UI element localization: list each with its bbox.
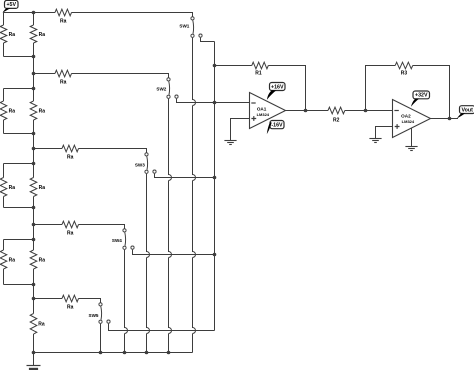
wire SW5 throw-to-ground bus	[100, 324, 102, 353]
switch SW2	[156, 78, 178, 99]
node pair2 top	[32, 87, 36, 91]
svg-text:Ra: Ra	[9, 257, 16, 263]
wire SW4 throw-to-ground bus	[125, 250, 128, 353]
svg-text:+16V: +16V	[271, 84, 284, 90]
wire SW2 throw-to-ground bus	[169, 99, 172, 353]
resistor Ra bottom	[30, 314, 45, 335]
node pair3 top	[32, 162, 36, 166]
net flag Vout	[457, 106, 474, 119]
node R1 output junction	[304, 109, 308, 113]
wire OA2 power pin	[411, 128, 413, 147]
node rail SW4	[123, 351, 127, 355]
svg-text:Ra: Ra	[67, 154, 74, 160]
resistor R1	[252, 62, 269, 76]
svg-text:Ra: Ra	[9, 185, 16, 191]
ground main	[27, 353, 41, 370]
wire SW4 to summing bus	[133, 250, 215, 255]
resistor Ra pair3 left	[0, 164, 15, 208]
resistor Ra pair2 left	[0, 89, 15, 134]
svg-text:Ra: Ra	[60, 18, 67, 24]
resistor Ra pair4 left	[0, 240, 15, 285]
wire OA2 output	[431, 118, 459, 120]
resistor Ra row2	[55, 70, 72, 85]
node pair1 bottom	[32, 55, 36, 59]
node row3 spine junction	[32, 147, 36, 151]
svg-text:LM324: LM324	[257, 112, 270, 117]
wire OA2 noninverting input	[376, 127, 393, 139]
power flag +32V	[411, 91, 430, 107]
svg-text:SW4: SW4	[112, 238, 122, 243]
resistor Ra row1	[55, 9, 72, 24]
wire pair2 top bracket	[4, 88, 34, 90]
svg-text:Ra: Ra	[9, 32, 16, 38]
wire OA1 noninverting input	[231, 119, 250, 141]
wire SW2 to inverting input	[177, 99, 250, 103]
ground OA1	[224, 140, 236, 145]
node rail SW3	[145, 351, 149, 355]
resistor Ra row4	[62, 221, 79, 236]
resistor Ra pair4 right	[30, 250, 45, 269]
node R3 output junction	[448, 117, 452, 121]
wire R1 right to output	[268, 66, 305, 111]
power flag +16V	[267, 83, 285, 100]
node pair3 bottom	[32, 206, 36, 210]
node summing bus R1 tap	[213, 64, 217, 68]
power flag +5V	[3, 0, 19, 12]
node rail SW2	[167, 351, 171, 355]
wire row3	[34, 149, 147, 153]
wire SW1 throw-to-ground bus	[193, 38, 196, 353]
node rail spine	[32, 351, 36, 355]
wire R2 to OA2 input	[345, 110, 393, 112]
switch SW5	[89, 303, 111, 324]
svg-text:Ra: Ra	[67, 304, 74, 310]
wire OA1 output	[286, 110, 329, 112]
ground OA2 power	[405, 146, 417, 151]
node summing bus SW3 tap	[213, 176, 217, 180]
svg-text:SW1: SW1	[179, 23, 189, 28]
wire pair3 bottom bracket	[4, 207, 34, 209]
svg-text:OA2: OA2	[401, 114, 411, 119]
ground OA2 input	[369, 138, 381, 143]
wire row4	[34, 225, 125, 229]
wire ladder spine	[33, 13, 35, 353]
resistor Ra row3	[62, 145, 79, 160]
svg-text:LM324: LM324	[402, 119, 415, 124]
resistor R3	[395, 62, 413, 76]
svg-text:R1: R1	[255, 70, 262, 76]
node row2 spine junction	[32, 72, 36, 76]
node pair2 bottom	[32, 132, 36, 136]
svg-text:SW5: SW5	[89, 313, 99, 318]
resistor Ra pair3 right	[30, 178, 45, 197]
svg-text:Ra: Ra	[67, 230, 74, 236]
wire R3 left leg	[366, 66, 396, 111]
wire ground rail	[34, 352, 193, 354]
wire pair2 bottom bracket	[4, 133, 34, 135]
svg-text:-16V: -16V	[271, 122, 283, 128]
wire R1 left	[215, 65, 252, 67]
wire row2	[34, 74, 169, 78]
wire row5	[34, 299, 101, 303]
svg-text:+32V: +32V	[415, 93, 428, 99]
switch SW1	[179, 17, 202, 38]
wire SW3 throw-to-ground bus	[147, 174, 150, 353]
wire pair4 bottom bracket	[4, 284, 34, 286]
wire SW1 to summing bus	[201, 38, 215, 42]
node rail SW5	[99, 351, 103, 355]
wire pair1 bottom bracket	[4, 56, 34, 58]
svg-text:R2: R2	[333, 117, 340, 123]
wire R3 right leg	[413, 66, 450, 119]
node summing bus SW4 tap	[213, 253, 217, 257]
wire SW5 to summing bus	[109, 324, 215, 331]
wire +5V top rail	[4, 13, 193, 17]
switch SW3	[135, 153, 156, 174]
resistor R2	[328, 107, 345, 123]
switch SW4	[112, 229, 134, 250]
svg-text:SW2: SW2	[156, 87, 166, 92]
svg-text:OA1: OA1	[257, 107, 267, 112]
resistor Ra pair2 right	[30, 101, 45, 120]
svg-text:+5V: +5V	[6, 2, 16, 8]
svg-text:Ra: Ra	[9, 108, 16, 114]
power flag -16V	[267, 121, 284, 135]
wire pair4 top bracket	[4, 239, 34, 241]
node summing bus inverting input	[213, 101, 217, 105]
node row4 spine junction	[32, 223, 36, 227]
wire pair3 top bracket	[4, 163, 34, 165]
node R3 input junction	[364, 109, 368, 113]
resistor Ra row5	[62, 295, 79, 310]
svg-text:Ra: Ra	[39, 108, 46, 114]
resistor Ra pair1 left	[0, 13, 15, 57]
node pair4 bottom	[32, 283, 36, 287]
svg-text:SW3: SW3	[135, 162, 145, 167]
svg-text:Ra: Ra	[39, 185, 46, 191]
wire summing bus	[214, 42, 216, 331]
svg-text:Ra: Ra	[38, 322, 45, 328]
op-amp OA1 LM324	[250, 93, 286, 129]
svg-text:Ra: Ra	[39, 32, 46, 38]
resistor Ra pair1 right	[30, 25, 45, 43]
wire SW3 to summing bus	[155, 174, 215, 178]
svg-text:Vout: Vout	[461, 107, 473, 113]
svg-text:R3: R3	[401, 71, 408, 77]
node pair4 top	[32, 238, 36, 242]
svg-text:Ra: Ra	[60, 79, 67, 85]
node top of ladder spine	[32, 11, 36, 15]
svg-text:Ra: Ra	[39, 257, 46, 263]
op-amp OA2 LM324	[393, 100, 431, 138]
node row5 spine junction	[32, 297, 36, 301]
